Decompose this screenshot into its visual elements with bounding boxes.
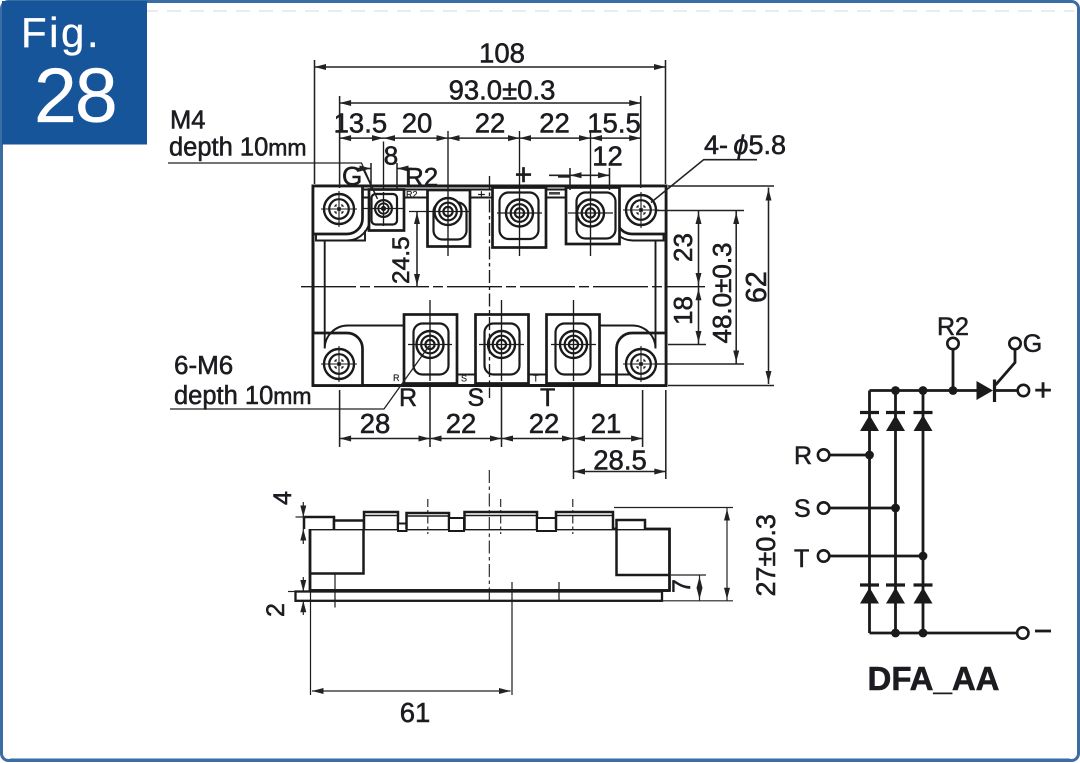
leg 2 xyxy=(894,391,897,634)
screw crosshairs and centerlines xyxy=(363,131,613,381)
mounting hole top-left xyxy=(321,191,357,227)
svg-text:G: G xyxy=(1023,330,1042,358)
terminal block T xyxy=(547,315,600,384)
body xyxy=(310,529,670,591)
leg 3 xyxy=(922,391,925,634)
svg-text:21: 21 xyxy=(591,408,622,439)
svg-text:2: 2 xyxy=(262,603,290,617)
bump b3 xyxy=(364,512,398,529)
svg-text:T: T xyxy=(533,374,539,384)
dim 61 xyxy=(312,688,511,728)
bump b1 xyxy=(304,517,334,529)
junction node bottom leg3 xyxy=(919,629,928,638)
screw terminal minus xyxy=(577,200,604,227)
input T xyxy=(794,545,927,573)
dim 108 xyxy=(315,38,666,185)
mounting hole top-right xyxy=(623,192,659,228)
terminal block R2 xyxy=(428,190,471,247)
svg-text:S: S xyxy=(468,384,485,412)
svg-text:G: G xyxy=(342,161,362,191)
dim 24.5 xyxy=(388,212,420,287)
svg-text:62: 62 xyxy=(741,271,773,303)
mounting hole bottom-right xyxy=(623,346,659,382)
label M4 depth 10mm xyxy=(168,107,378,200)
label 6-M6 depth 10mm xyxy=(170,346,429,410)
bump b7 xyxy=(617,520,646,529)
bump b2 xyxy=(334,521,364,530)
svg-text:4- ϕ5.8: 4- ϕ5.8 xyxy=(704,130,786,160)
input R xyxy=(794,442,874,470)
centerlines xyxy=(488,470,490,601)
dim chain bottom 28 22 22 21 xyxy=(340,387,643,479)
junction node R2 tap xyxy=(949,386,958,395)
svg-text:7: 7 xyxy=(668,579,696,593)
svg-text:depth 10mm: depth 10mm xyxy=(174,382,312,410)
screw terminal R xyxy=(417,331,444,358)
svg-text:22: 22 xyxy=(529,408,560,439)
dim 18 xyxy=(668,287,706,344)
svg-text:23: 23 xyxy=(668,233,698,262)
svg-text:24.5: 24.5 xyxy=(388,236,415,284)
module centerlines xyxy=(301,176,705,398)
bump b4 xyxy=(407,513,450,529)
svg-text:4: 4 xyxy=(269,491,297,505)
diode D6 bottom xyxy=(914,585,933,604)
svg-text:T: T xyxy=(540,384,555,412)
notch n1 xyxy=(398,524,407,532)
label minus xyxy=(558,175,570,177)
terminal screws xyxy=(417,198,605,358)
svg-text:27±0.3: 27±0.3 xyxy=(751,514,781,596)
diode D4 bottom xyxy=(860,585,879,604)
dim 7 xyxy=(668,575,706,601)
corner pad top-right xyxy=(617,186,667,234)
screw terminal R2 xyxy=(435,198,462,225)
fig number box xyxy=(2,1,147,145)
dim 8 xyxy=(356,141,412,191)
svg-text:+: + xyxy=(478,187,486,202)
terminal block minus xyxy=(566,188,620,245)
leg 1 xyxy=(868,391,871,634)
svg-text:R: R xyxy=(393,373,400,383)
svg-text:8: 8 xyxy=(384,141,398,171)
molded tiny marks xyxy=(393,187,560,384)
svg-text:20: 20 xyxy=(402,108,433,139)
terminal R2 xyxy=(937,313,969,391)
bump b5 xyxy=(465,512,538,529)
svg-text:28: 28 xyxy=(360,408,391,439)
dim 27±0.3 xyxy=(614,508,781,601)
svg-text:15.5: 15.5 xyxy=(587,108,641,139)
left boss xyxy=(310,529,364,574)
terminal block R xyxy=(404,315,457,384)
svg-text:S: S xyxy=(461,374,467,384)
dim 4 xyxy=(269,491,308,544)
terminal G xyxy=(1009,330,1042,358)
diode D3 top xyxy=(914,413,933,432)
module outer outline xyxy=(313,186,666,386)
dim 2 xyxy=(262,577,306,617)
corner pad bottom-right xyxy=(617,333,667,386)
bump b6 xyxy=(556,512,613,529)
svg-text:22: 22 xyxy=(475,108,506,139)
dim 93.0±0.3 xyxy=(340,75,641,189)
svg-text:93.0±0.3: 93.0±0.3 xyxy=(449,75,556,106)
svg-text:13.5: 13.5 xyxy=(334,108,388,139)
screw terminal S xyxy=(488,331,515,358)
svg-text:28.5: 28.5 xyxy=(593,445,647,476)
junction node bottom leg2 xyxy=(891,629,900,638)
bottom rail xyxy=(870,632,1018,635)
junction node top leg2 xyxy=(891,386,900,395)
dim 23 xyxy=(668,211,702,286)
diode D2 top xyxy=(886,413,905,432)
corner pad bottom-left xyxy=(313,333,363,386)
terminal block S xyxy=(476,315,529,384)
svg-text:18: 18 xyxy=(668,296,698,325)
svg-text:R: R xyxy=(399,384,417,412)
svg-text:108: 108 xyxy=(479,38,525,69)
baseplate xyxy=(296,592,663,601)
svg-text:12: 12 xyxy=(592,141,623,172)
svg-text:+: + xyxy=(1034,372,1052,407)
screw terminal T xyxy=(560,331,587,358)
dim 28.5 xyxy=(574,390,666,479)
svg-text:48.0±0.3: 48.0±0.3 xyxy=(707,242,737,343)
terminal block G xyxy=(369,190,404,231)
svg-text:M4: M4 xyxy=(170,107,205,135)
top rail xyxy=(870,389,977,392)
thyristor xyxy=(977,349,1016,402)
dim chain 13.5 20 22 22 15.5 xyxy=(334,108,641,142)
svg-text:22: 22 xyxy=(539,108,570,139)
svg-text:61: 61 xyxy=(400,697,431,728)
svg-text:22: 22 xyxy=(446,408,477,439)
terminal plus xyxy=(1018,372,1052,407)
dim 48.0±0.3 xyxy=(656,211,744,365)
svg-text:R: R xyxy=(794,442,812,470)
dim 62 xyxy=(668,186,774,386)
diode D5 bottom xyxy=(886,585,905,604)
svg-text:S: S xyxy=(794,495,811,523)
label G xyxy=(342,161,377,198)
svg-text:+: + xyxy=(515,159,533,192)
notch n3 xyxy=(537,518,556,531)
svg-text:6-M6: 6-M6 xyxy=(174,350,233,380)
right boss xyxy=(617,529,670,575)
input S xyxy=(794,495,900,523)
svg-text:R2: R2 xyxy=(937,313,969,341)
mounting hole bottom-left xyxy=(321,346,357,382)
svg-text:depth 10mm: depth 10mm xyxy=(169,134,307,162)
dim 12 xyxy=(549,141,623,191)
hidden verticals xyxy=(334,574,336,608)
svg-text:28: 28 xyxy=(34,53,116,139)
svg-text:R2: R2 xyxy=(405,162,438,192)
terminal minus xyxy=(1017,627,1051,638)
svg-text:DFA_AA: DFA_AA xyxy=(867,660,999,697)
svg-text:Fig.: Fig. xyxy=(21,9,101,56)
screw terminal plus xyxy=(506,200,533,227)
diode D1 top xyxy=(860,413,879,432)
svg-text:T: T xyxy=(794,545,809,573)
inner case lines xyxy=(316,190,664,375)
junction node top leg3 xyxy=(919,386,928,395)
label 4-phi5.8 with leader xyxy=(651,130,786,203)
notch n2 xyxy=(449,518,464,531)
terminal block plus xyxy=(493,188,547,248)
corner pad top-left xyxy=(313,186,363,234)
